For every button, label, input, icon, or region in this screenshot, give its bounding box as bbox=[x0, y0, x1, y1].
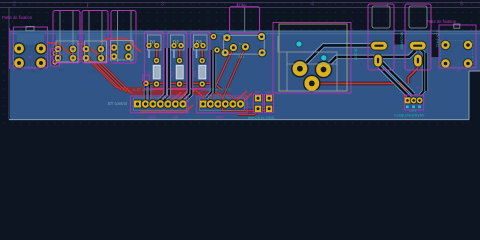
connector J3 silk box bbox=[82, 11, 108, 64]
board top edge bbox=[0, 7, 480, 9]
SV1 pad F bbox=[258, 48, 267, 57]
resistor R3 body bbox=[193, 65, 206, 79]
svg-text:NFC/SPIRIT: NFC/SPIRIT bbox=[400, 32, 404, 50]
D2 pads bbox=[170, 42, 184, 49]
pad P9 bbox=[142, 80, 149, 87]
U3 pads bbox=[110, 43, 133, 61]
J6 pad 6 bbox=[236, 99, 245, 108]
J4 fab lines bbox=[118, 11, 132, 62]
J5 pad 4 bbox=[156, 99, 165, 108]
red trace across U3 bbox=[100, 39, 141, 53]
svg-text:ADC: ADC bbox=[216, 114, 225, 119]
fuse F1 silk box bbox=[368, 4, 394, 70]
J5 pad 1 bbox=[133, 100, 142, 109]
red trace D1 to R1 bbox=[155, 46, 158, 60]
J7 courtyard bbox=[441, 41, 473, 68]
D3 pads bbox=[193, 42, 207, 49]
F1 fab bbox=[372, 6, 390, 28]
black trace pair under opto columns 2 bbox=[182, 48, 192, 100]
opto U2 fab box bbox=[85, 41, 107, 62]
opto U1 fab box bbox=[56, 41, 78, 62]
KF fab line bbox=[244, 8, 246, 33]
J6 pad 3 bbox=[213, 99, 222, 108]
red horizontal in conn1 bbox=[140, 105, 193, 112]
D1 pads bbox=[145, 42, 160, 49]
J6 pad 5 bbox=[228, 99, 237, 108]
JP3 pad 2 bbox=[265, 105, 273, 113]
J1 pad 1 bbox=[404, 97, 412, 105]
F2 oval pad top bbox=[409, 41, 427, 51]
svg-text:D1: D1 bbox=[150, 40, 156, 45]
via 2 bbox=[320, 54, 327, 61]
adc net labels bbox=[206, 88, 231, 98]
connector J5 silk box bbox=[131, 96, 189, 113]
svg-text:BP: BP bbox=[173, 114, 179, 119]
J8 pad 3 bbox=[13, 57, 26, 70]
red bundle traces a-d bbox=[85, 58, 240, 105]
JP2 pad 1 bbox=[254, 94, 262, 102]
svg-text:JP2: JP2 bbox=[255, 90, 261, 94]
black trace F2 down pair bbox=[418, 47, 426, 95]
red trace to JP2 bbox=[238, 111, 258, 114]
C pad small 2 bbox=[213, 46, 220, 53]
courtyard fill J2 bbox=[56, 34, 77, 63]
zone cutout notch between fuse holders bbox=[394, 31, 405, 45]
SV1 pad D bbox=[229, 43, 238, 52]
red diag across U1 bbox=[48, 43, 80, 61]
courtyard fill J4 bbox=[111, 34, 133, 60]
copper zone grid dots bbox=[10, 31, 480, 119]
dimension tick 3 bbox=[387, 2, 389, 8]
JP2 silk box bbox=[254, 95, 263, 113]
red trace SV1 to conn2 bbox=[211, 48, 234, 102]
zone hatch line bbox=[10, 33, 480, 35]
board notch top edge bbox=[469, 70, 480, 72]
zone top edge bbox=[10, 30, 480, 32]
SV1 pad C bbox=[221, 48, 230, 57]
board right edge bbox=[468, 71, 470, 120]
U2 pads bbox=[82, 45, 106, 63]
J8 pad 2 bbox=[35, 42, 48, 55]
J8 courtyard bbox=[13, 44, 45, 67]
svg-text:KF/BU: KF/BU bbox=[237, 3, 248, 7]
board bottom edge bbox=[9, 119, 469, 121]
svg-text:adc0 adc2 gnd: adc0 adc2 gnd bbox=[206, 88, 231, 92]
red diagonals into conn1 bbox=[169, 88, 197, 104]
D2 fab box bbox=[170, 35, 184, 50]
F1 oval pad top bbox=[370, 41, 388, 51]
C pad small 1 bbox=[210, 33, 217, 40]
J7 pad 1 bbox=[440, 40, 450, 50]
svg-text:5V1: 5V1 bbox=[239, 42, 245, 46]
D3 fab box bbox=[193, 35, 207, 50]
JP3 silk box bbox=[265, 95, 274, 113]
svg-text:D3: D3 bbox=[196, 40, 202, 45]
copper zone B.Cu fill bbox=[10, 31, 480, 119]
relay fab step bbox=[278, 36, 337, 64]
J5 fab inner bbox=[134, 98, 187, 110]
JP2 pad 2 bbox=[254, 105, 262, 113]
svg-text:D2: D2 bbox=[173, 40, 179, 45]
black trace relay pad2 to F2 bbox=[324, 51, 416, 70]
svg-text:JP3: JP3 bbox=[266, 90, 272, 94]
J5 pad 3 bbox=[148, 99, 157, 108]
red diag across U2 bbox=[77, 44, 107, 62]
svg-text:SV1: SV1 bbox=[238, 55, 245, 59]
diode D3 silk box bbox=[191, 32, 210, 89]
mounting bracket J8 silk box bbox=[14, 27, 48, 68]
red trace D2 to R2 bbox=[178, 46, 181, 60]
svg-text:LED: LED bbox=[148, 114, 156, 119]
opto U3 fab box bbox=[111, 41, 134, 61]
SV1 pad A bbox=[222, 33, 231, 42]
courtyard fill J3 bbox=[85, 34, 106, 63]
SV1 labels bbox=[238, 42, 245, 59]
J6 pad 4 bbox=[221, 99, 230, 108]
J1 pad 2 bbox=[410, 97, 418, 105]
J6 fab inner bbox=[200, 98, 245, 110]
power connector KF silk box bbox=[230, 7, 260, 33]
J5 pad 7 bbox=[178, 99, 187, 108]
svg-text:Rx: Rx bbox=[59, 68, 64, 73]
J5 pad 2 bbox=[141, 99, 150, 108]
courtyard fill J8 bbox=[17, 33, 44, 44]
fuse F2 silk box bbox=[405, 4, 431, 70]
svg-text:3v3 adc1 adc3: 3v3 adc1 adc3 bbox=[206, 94, 231, 98]
resistor R2 body bbox=[171, 65, 184, 79]
svg-text:Tx: Tx bbox=[92, 69, 96, 74]
JP3 pad 1 bbox=[265, 94, 273, 102]
F2 oval pad bottom bbox=[413, 54, 423, 68]
J8 notch bbox=[26, 27, 34, 31]
F1 oval pad bottom bbox=[373, 54, 383, 68]
black trace pair to conn1 bbox=[146, 85, 150, 100]
D1 fab box bbox=[147, 35, 161, 50]
red trace F2 to bus bbox=[408, 58, 417, 84]
SV1 pad B bbox=[257, 32, 266, 41]
resistor R1 body bbox=[148, 65, 161, 79]
connector J6 silk box bbox=[197, 96, 247, 113]
svg-text:Patte de fixation: Patte de fixation bbox=[2, 15, 33, 20]
svg-text:1.5V (NFC): 1.5V (NFC) bbox=[436, 31, 440, 47]
connector J4 silk box bbox=[111, 11, 136, 64]
U1 pads bbox=[54, 45, 78, 63]
svg-text:Patte de fixation: Patte de fixation bbox=[426, 19, 457, 24]
J6 pad 1 bbox=[199, 100, 208, 109]
svg-text:J1A 5: J1A 5 bbox=[409, 109, 416, 113]
J7 pad 2 bbox=[463, 40, 473, 50]
board corner notch bottom right bbox=[469, 71, 480, 130]
connector J2 silk box bbox=[53, 11, 80, 64]
svg-text:J1: J1 bbox=[416, 86, 420, 90]
svg-text:3: 3 bbox=[161, 2, 164, 8]
svg-text:5: 5 bbox=[460, 2, 463, 8]
dimension tick 2 bbox=[237, 2, 239, 8]
relay pad 1 bbox=[291, 60, 309, 78]
diode D1 silk box bbox=[144, 32, 163, 89]
light blue stubs under D left pads bbox=[149, 46, 197, 58]
J8 pad 1 bbox=[13, 42, 26, 55]
relay body outline eco bbox=[279, 24, 347, 91]
R1 pads bbox=[153, 57, 160, 88]
svg-text:R14: R14 bbox=[193, 71, 197, 77]
J7 pad 3 bbox=[440, 58, 450, 68]
red trace R bottoms bus bbox=[146, 83, 222, 90]
svg-text:BT control: BT control bbox=[108, 101, 127, 106]
small component C silk box bbox=[51, 49, 60, 67]
J5 pad 5 bbox=[163, 99, 172, 108]
svg-text:Cold(L)/Hot(R)/5V: Cold(L)/Hot(R)/5V bbox=[394, 113, 425, 117]
J7 notch bbox=[454, 24, 460, 28]
mounting bracket J7 silk box bbox=[439, 25, 476, 68]
relay pad 2 bbox=[315, 61, 333, 79]
svg-text:2: 2 bbox=[13, 2, 16, 8]
zone cutout notch left of J7 bbox=[432, 31, 439, 57]
J8 pad 4 bbox=[35, 57, 48, 70]
J3 fab lines bbox=[89, 11, 102, 62]
black trace pair under D3 bbox=[206, 50, 215, 98]
relay pad 3 bbox=[303, 75, 321, 93]
via 1 bbox=[296, 41, 303, 48]
red trace SV1 to JP3 bbox=[223, 47, 269, 111]
svg-text:R13: R13 bbox=[171, 71, 175, 77]
F2 fab bbox=[409, 6, 427, 28]
background grid dots bbox=[0, 0, 480, 130]
silk line along left board edge bbox=[8, 28, 10, 69]
small silk box above pad P9 bbox=[143, 75, 149, 80]
svg-text:3A 250V: 3A 250V bbox=[354, 48, 358, 61]
board left edge bbox=[8, 7, 10, 120]
svg-text:adc2/5 to GND: adc2/5 to GND bbox=[248, 115, 275, 120]
relay fab box bbox=[287, 52, 337, 91]
red diagonals into conn2 bbox=[234, 91, 253, 104]
SV1 pad E bbox=[241, 42, 250, 51]
dimension tick 1 bbox=[87, 2, 89, 8]
connector J1 silk box bbox=[404, 95, 423, 110]
red trace D3 to R3 bbox=[201, 46, 204, 60]
black trace relay pad1 to F1 bbox=[300, 45, 371, 69]
svg-text:4: 4 bbox=[311, 2, 314, 8]
svg-text:to BT rear 3v3: to BT rear 3v3 bbox=[133, 88, 155, 92]
J2 fab lines bbox=[60, 11, 73, 62]
red trace relay pad3 to J1 bbox=[312, 84, 406, 101]
black trace F1 to J1 pair bbox=[377, 62, 414, 99]
black trace pair under opto columns 1 bbox=[160, 48, 170, 101]
diode D2 silk box bbox=[167, 32, 186, 89]
J6 pad 2 bbox=[206, 99, 215, 108]
J5 pad 6 bbox=[171, 99, 180, 108]
regulator SV1 fab box bbox=[224, 35, 265, 54]
dimension line top bbox=[0, 2, 480, 4]
R3 pads bbox=[199, 57, 206, 88]
svg-text:J7: J7 bbox=[457, 69, 461, 73]
J1 pad 3 bbox=[416, 97, 424, 105]
relay K1 silk box bbox=[273, 23, 351, 94]
R2 pads bbox=[176, 57, 183, 88]
small component C pads bbox=[51, 50, 58, 66]
J7 pad 4 bbox=[463, 58, 473, 68]
J8 anchor cross bbox=[29, 56, 32, 59]
J1 cyan marks bbox=[406, 106, 421, 109]
